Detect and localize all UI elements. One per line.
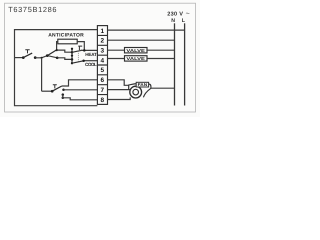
wire terminal 7 to fan — [108, 89, 130, 91]
wire terminal 6 to fan — [108, 80, 129, 86]
terminal numbers 1-8 — [101, 28, 105, 104]
label 230 V ~ — [167, 10, 189, 17]
node fan contact 8b — [62, 97, 65, 100]
node contact A — [22, 56, 25, 59]
svg-text:2: 2 — [101, 38, 105, 45]
wire terminal 1 to L — [108, 29, 185, 31]
svg-text:8: 8 — [101, 97, 105, 104]
svg-text:6: 6 — [101, 77, 105, 84]
power rail N — [174, 23, 176, 105]
svg-text:3: 3 — [101, 48, 105, 55]
node bus pivot 2 — [71, 51, 74, 54]
node bus pivot 1 — [71, 48, 73, 50]
svg-text:4: 4 — [101, 57, 105, 64]
switch lever COOL — [72, 61, 84, 63]
node E — [56, 56, 59, 59]
switch lever A (temperature contact, open) — [23, 53, 32, 58]
node bus pivot 5 — [71, 62, 73, 64]
node junction C — [41, 57, 43, 59]
switch lever FAN — [52, 86, 62, 91]
wire terminal 4 to valve 2 — [108, 58, 125, 60]
actuator push-rod fan switch — [53, 85, 57, 89]
valve 2 — [125, 56, 148, 61]
thermostat case outline — [15, 30, 98, 106]
svg-text:1: 1 — [101, 28, 105, 35]
node anticipator tap — [56, 49, 58, 51]
node bus pivot 3 — [71, 54, 73, 56]
power rail L — [184, 23, 186, 105]
anticipator heater resistor — [58, 39, 77, 44]
mechanical link (dashed) — [77, 51, 79, 62]
wire to terminal 7 — [64, 89, 98, 91]
fan motor M1 wheel — [130, 86, 142, 98]
svg-text:HEAT: HEAT — [85, 52, 97, 57]
wire resistor right to heat junction — [77, 42, 84, 51]
svg-text:VALVE: VALVE — [126, 48, 145, 53]
wire valve 1 to N — [147, 49, 175, 51]
svg-text:VALVE: VALVE — [126, 56, 145, 61]
wire lever tip to terminal 6 — [62, 80, 98, 86]
node contact B — [34, 56, 37, 59]
node fan contact 7 — [62, 89, 65, 92]
svg-text:230 V: 230 V — [167, 11, 183, 17]
wire terminal 3 to valve 1 — [108, 49, 125, 51]
svg-text:7: 7 — [101, 87, 105, 94]
svg-text:5: 5 — [101, 67, 105, 74]
node heat junction — [83, 49, 86, 52]
svg-text:COOL: COOL — [85, 62, 97, 67]
wire to terminal 8 — [63, 95, 98, 100]
terminal strip outline — [97, 26, 107, 105]
wire resistor left riser — [57, 42, 58, 50]
label FAN — [136, 82, 148, 87]
svg-text:FAN: FAN — [138, 82, 148, 87]
svg-text:ANTICIPATOR: ANTICIPATOR — [48, 33, 84, 39]
fan motor M1 volute — [129, 83, 151, 97]
wire left stub — [15, 57, 24, 59]
node contact D — [46, 54, 49, 57]
node bus pivot 4 — [71, 58, 74, 61]
node fan switch contact — [51, 90, 54, 93]
actuator push-rod changeover — [78, 46, 82, 50]
switch lever HEAT — [72, 50, 82, 52]
node fan contact 8a — [62, 93, 65, 96]
svg-text:~: ~ — [186, 10, 190, 17]
wire COOL line to terminal 4 — [84, 60, 98, 62]
terminal cell dividers — [97, 35, 107, 94]
node cool contact — [82, 59, 85, 62]
wire feed down to fan switch — [41, 58, 43, 91]
outer frame (decorative) — [5, 3, 196, 112]
valve 1 — [125, 48, 148, 53]
wire terminal 2 to N — [108, 39, 175, 41]
actuator push-rod A — [25, 50, 29, 54]
wire HEAT line to terminal 3 — [81, 49, 98, 51]
svg-text:T6375B1286: T6375B1286 — [8, 5, 57, 14]
wire heat branch to changeover bus — [57, 50, 72, 52]
wire valve 2 to N — [147, 58, 175, 60]
switch lever D (temperature contact to anticipator) — [47, 50, 56, 56]
wire fan to N — [151, 87, 175, 89]
changeover pivot bus — [71, 49, 73, 64]
wire main bus B to E — [35, 56, 57, 58]
wire cool branch to changeover bus — [57, 58, 72, 60]
wire terminal 8 to fan — [108, 97, 131, 99]
wire fan switch feed elbow — [42, 90, 53, 92]
